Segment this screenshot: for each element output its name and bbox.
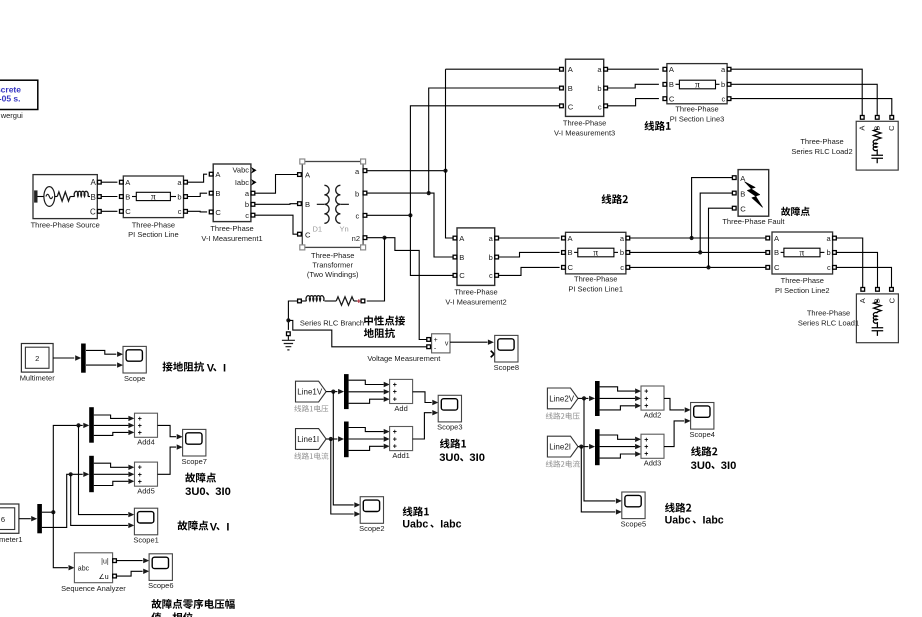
svg-text:I: I	[226, 521, 229, 533]
block Three-Phase Series RLC Load1	[856, 294, 898, 343]
svg-text:C: C	[215, 208, 221, 217]
block Three-Phase PI Section Line	[123, 176, 183, 218]
wire l1v out1	[349, 380, 384, 384]
wire l2v out3	[600, 406, 635, 410]
svg-text:3I0: 3I0	[215, 486, 231, 498]
label xianlu2 mid	[691, 446, 717, 456]
port XFMR c	[363, 214, 367, 218]
block Add3	[641, 434, 664, 468]
svg-text:A: A	[90, 178, 96, 187]
block Three-Phase PI Section Line1	[566, 232, 626, 274]
svg-text:Add1: Add1	[392, 451, 410, 460]
block Three-Phase Transformer (Two Windings)	[300, 159, 366, 250]
wire l2v out2	[600, 397, 635, 399]
port XFMR B	[298, 202, 302, 206]
svg-text:+: +	[138, 416, 142, 423]
svg-text:+: +	[138, 430, 142, 437]
svg-text:D1: D1	[313, 224, 323, 233]
svg-text:+: +	[644, 403, 648, 410]
wire Add1 to Scope3 in2	[413, 413, 432, 439]
port XFMR C	[298, 232, 302, 236]
port PI2 b	[833, 251, 837, 255]
svg-text:Three-Phase Source: Three-Phase Source	[31, 220, 100, 229]
svg-text:B: B	[90, 193, 95, 202]
port Load2 A	[860, 116, 864, 120]
label zhi xiangwei	[151, 612, 192, 617]
svg-text:B: B	[568, 248, 573, 257]
svg-text:e-05 s.: e-05 s.	[0, 94, 21, 104]
wire current to Scope1 in2	[71, 474, 128, 525]
wire VIM1 b to XFMR B	[255, 203, 298, 206]
svg-text:B: B	[125, 192, 130, 201]
svg-text:b: b	[245, 200, 249, 209]
port VIM1 b	[251, 203, 255, 207]
label xianlu1 bottom	[403, 506, 429, 516]
svg-text:V: V	[210, 521, 218, 533]
scope Scope7	[181, 429, 206, 465]
port VIM3 b	[604, 86, 608, 90]
label jiedizukang VI	[163, 362, 205, 372]
junction fault tap c	[706, 265, 710, 269]
wire PI2 b to load1 B	[836, 252, 877, 287]
svg-text:+: +	[434, 337, 438, 344]
svg-text:(Two Windings): (Two Windings)	[307, 270, 359, 279]
svg-text:abc: abc	[78, 565, 90, 572]
svg-text:Line2V: Line2V	[549, 394, 575, 403]
wire voltage to Add4 demux	[53, 425, 82, 512]
wire Line2V to Scope5 in1	[584, 398, 615, 501]
label xianlu1 dianya	[294, 405, 328, 412]
wire d5 out2	[94, 473, 129, 475]
port Three-Phase Source A	[98, 180, 102, 184]
wire Add to Scope3 in1	[413, 392, 432, 403]
port PI1 C	[562, 266, 566, 270]
wire Add5 to Scope7	[158, 447, 177, 474]
wire l1v out3	[349, 399, 384, 403]
port PI line c	[184, 210, 188, 214]
wire VM to Scope8	[450, 341, 488, 343]
label xianlu2 dianya	[546, 412, 580, 419]
svg-text:V-I Measurement3: V-I Measurement3	[554, 128, 615, 137]
label guzhangdian	[781, 207, 810, 216]
svg-text:wergui: wergui	[0, 111, 23, 120]
port VIM2 b	[495, 255, 499, 259]
svg-text:B: B	[669, 80, 674, 89]
demux Demux Add4	[89, 407, 94, 443]
wire Add2 to Scope4 in1	[664, 398, 684, 410]
svg-text:Three-Phase: Three-Phase	[311, 251, 354, 260]
label xianlu2	[602, 194, 628, 204]
svg-text:Line2I: Line2I	[549, 443, 571, 452]
wire source B to line B	[101, 196, 117, 198]
svg-text:Three-Phase: Three-Phase	[563, 119, 606, 128]
label xianlu1 dianliu	[294, 453, 328, 460]
port PI3 b	[727, 83, 731, 87]
port PI2 A	[766, 236, 770, 240]
wire fault tap B	[700, 193, 732, 252]
svg-text:v: v	[445, 341, 449, 348]
svg-text:+: +	[393, 382, 397, 389]
wire XFMR c to bus	[367, 214, 411, 216]
svg-text:C: C	[887, 125, 896, 131]
port VIM1 C	[209, 210, 213, 214]
wire voltage to Sequence Analyzer	[53, 512, 68, 568]
label guzhangdian VI	[178, 521, 209, 531]
port PI1 B	[562, 251, 566, 255]
port VM plus	[427, 338, 431, 342]
block Add	[390, 379, 413, 413]
svg-text:Transformer: Transformer	[312, 261, 353, 270]
port VIM2 a	[495, 236, 499, 240]
port XFMR A	[298, 173, 302, 177]
wire PI3 b to load2 B	[731, 84, 877, 115]
junction fault tap b	[698, 250, 702, 254]
svg-text:C: C	[669, 94, 675, 103]
svg-text:c: c	[489, 271, 493, 280]
port Load1 A	[861, 288, 865, 292]
wire VIM3 c to PI3 C	[608, 99, 659, 106]
svg-text:Scope: Scope	[124, 374, 145, 383]
svg-text:+: +	[393, 396, 397, 403]
port XFMR a	[363, 169, 367, 173]
wire XFMR b to bus	[367, 193, 453, 257]
svg-text:Add3: Add3	[644, 459, 662, 468]
wire demux out2 to Add5 demux	[42, 474, 83, 527]
svg-text:V-I Measurement1: V-I Measurement1	[201, 234, 262, 243]
svg-text:π: π	[800, 249, 805, 259]
svg-text:b: b	[620, 248, 624, 257]
demux Demux1	[37, 504, 42, 533]
wire d5 out1	[94, 463, 129, 467]
svg-text:PI Section Line1: PI Section Line1	[568, 284, 623, 293]
svg-text:A: A	[858, 298, 867, 303]
demux Demux	[81, 344, 86, 373]
from tag Line2V	[547, 388, 578, 409]
wire Line1V to demux	[326, 391, 337, 393]
label xianlu1 mid	[440, 439, 466, 449]
port PI line C	[120, 210, 124, 214]
wire fault tap A	[692, 178, 733, 238]
port VIM1 Iabc chevron	[251, 179, 257, 186]
scope Scope2	[359, 497, 384, 533]
svg-text:Add2: Add2	[644, 411, 662, 420]
svg-text:b: b	[355, 189, 359, 198]
svg-text:C: C	[568, 102, 574, 111]
svg-text:Scope7: Scope7	[181, 457, 206, 466]
wire PI2 a to load1 A	[836, 238, 862, 288]
port PI1 a	[626, 236, 630, 240]
svg-text:+: +	[644, 451, 648, 458]
scope Scope8	[494, 335, 519, 371]
port VIM3 C	[560, 104, 564, 108]
wire PI3 a to load2 A	[731, 69, 862, 115]
port PI1 c	[626, 266, 630, 270]
wire d4 out3	[94, 432, 129, 435]
svg-text:c: c	[245, 211, 249, 220]
block Voltage Measurement	[432, 334, 450, 353]
wire l1i out2	[349, 438, 384, 440]
svg-text:Three-Phase: Three-Phase	[574, 275, 617, 284]
svg-text:+: +	[393, 389, 397, 396]
svg-text:+: +	[644, 437, 648, 444]
wire Multimeter1 to demux	[19, 518, 31, 520]
label xianlu1 top	[644, 121, 670, 131]
wire n2 to RLC branch	[367, 238, 385, 301]
svg-text:b: b	[721, 80, 725, 89]
port PI2 a	[833, 236, 837, 240]
junction Line1V tap	[331, 390, 335, 394]
wire d5 out3	[94, 481, 129, 485]
svg-text:Scope8: Scope8	[494, 363, 519, 372]
svg-text:Iabc: Iabc	[235, 178, 249, 187]
svg-text:B: B	[568, 84, 573, 93]
svg-text:∠u: ∠u	[99, 573, 109, 581]
wire Multimeter to demux	[53, 357, 74, 359]
block Three-Phase V-I Measurement2	[457, 228, 495, 286]
svg-text:V-I Measurement2: V-I Measurement2	[445, 297, 506, 306]
junction XFMR c bus	[408, 213, 412, 217]
wire bus a to VIM3 A	[446, 68, 560, 70]
svg-text:c: c	[178, 207, 182, 216]
junction Line1I tap	[329, 437, 333, 441]
svg-text:Three-Phase: Three-Phase	[800, 137, 843, 146]
port VIM3 a	[604, 67, 608, 71]
svg-text:Yn: Yn	[340, 224, 349, 233]
port VIM3 B	[560, 86, 564, 90]
junction Line2I tap	[579, 445, 583, 449]
svg-text:Uabc: Uabc	[402, 519, 428, 531]
port VIM3 A	[560, 67, 564, 71]
wire VIM2 c to PI1 C	[499, 267, 560, 275]
block powergui	[0, 80, 38, 109]
from tag Line1V	[296, 381, 327, 402]
junction Line2V tap	[582, 396, 586, 400]
port XFMR b	[363, 191, 367, 195]
wire demux1 to Scope in1	[86, 350, 116, 354]
svg-text:Three-Phase: Three-Phase	[210, 224, 253, 233]
svg-text:Three-Phase Fault: Three-Phase Fault	[722, 217, 785, 226]
svg-text:Iabc: Iabc	[703, 515, 724, 527]
svg-text:I: I	[223, 362, 226, 374]
label zhongxingdian jiedi	[364, 316, 405, 326]
wire Line2I to Scope5 in2	[581, 447, 615, 512]
port PI3 B	[663, 83, 667, 87]
wire Add3 to Scope4 in2	[664, 421, 684, 447]
svg-text:Iabc: Iabc	[440, 519, 461, 531]
port Load1 B	[876, 288, 880, 292]
svg-text:Line1V: Line1V	[297, 388, 323, 397]
wire XFMR a to bus	[367, 170, 446, 172]
demux Demux Add5	[89, 456, 94, 492]
wire source C to line C	[101, 210, 117, 212]
svg-text:c: c	[721, 94, 725, 103]
port Load2 C	[890, 116, 894, 120]
wire Line2V to demux	[578, 397, 588, 399]
port PI3 A	[663, 67, 667, 71]
wire source A to line A	[101, 181, 117, 183]
block Three-Phase PI Section Line2	[772, 232, 833, 274]
junction n2	[382, 236, 386, 240]
svg-text:Scope1: Scope1	[133, 536, 158, 545]
wire l2v out1	[600, 387, 635, 391]
svg-text:A: A	[858, 126, 867, 131]
svg-text:Scope3: Scope3	[437, 423, 462, 432]
svg-text:c: c	[598, 102, 602, 111]
svg-text:Three-Phase: Three-Phase	[781, 276, 824, 285]
port PI line b	[184, 195, 188, 199]
svg-text:Three-Phase: Three-Phase	[132, 220, 175, 229]
port Fault C	[732, 206, 736, 210]
junction XFMR a bus	[443, 169, 447, 173]
svg-text:PI Section Line2: PI Section Line2	[775, 286, 830, 295]
scope Scope4	[689, 403, 714, 439]
wire fault tap C	[709, 208, 733, 267]
demux Demux Line2I	[595, 429, 600, 465]
block Multimeter	[21, 344, 53, 373]
junction current scope tap	[69, 472, 73, 476]
svg-text:Add4: Add4	[137, 438, 155, 447]
svg-text:C: C	[568, 263, 574, 272]
wire l2i out1	[600, 435, 635, 439]
svg-text:Series RLC Load2: Series RLC Load2	[791, 147, 852, 156]
wire demux1 to Scope in2	[86, 364, 116, 366]
svg-text:B: B	[215, 189, 220, 198]
svg-text:b: b	[177, 192, 181, 201]
label guzhangdian lingxu	[152, 599, 235, 609]
port Fault A	[732, 176, 736, 180]
port SeqAn angle	[113, 574, 117, 578]
svg-text:Scope6: Scope6	[148, 581, 173, 590]
svg-text:3I0: 3I0	[721, 460, 737, 472]
block Add4	[135, 413, 158, 447]
svg-text:+: +	[644, 389, 648, 396]
wire PI1 c to PI2 C	[630, 266, 766, 268]
block Three-Phase V-I Measurement1	[213, 164, 251, 222]
svg-text:C: C	[887, 297, 896, 303]
wire PI a to VIM1 A	[187, 174, 207, 182]
demux Demux Line2V	[595, 381, 600, 416]
block Add1	[390, 427, 413, 461]
block Three-Phase Source	[33, 175, 97, 219]
svg-text:+: +	[138, 472, 142, 479]
wire n2 to voltage measurement	[385, 238, 427, 340]
wire Line1I to demux	[326, 438, 337, 440]
port PI1 b	[626, 251, 630, 255]
wire Line1V to Scope2 in1	[333, 392, 353, 505]
wire RLC to ground	[288, 301, 297, 330]
port Three-Phase Source B	[98, 195, 102, 199]
wire d4 out1	[94, 415, 129, 418]
label xianlu2 dianliu	[546, 460, 580, 467]
port RLC branch right	[361, 299, 365, 303]
svg-text:Series RLC Load1: Series RLC Load1	[798, 318, 859, 327]
wire VIM1 a to XFMR A	[255, 175, 298, 194]
wire PI c to VIM1 C	[187, 210, 207, 213]
port XFMR n2	[363, 236, 367, 240]
wire Add4 to Scope7	[158, 425, 177, 436]
svg-text:Three-Phase: Three-Phase	[454, 288, 497, 297]
svg-text:3I0: 3I0	[469, 452, 485, 464]
wire Line2I to demux	[578, 446, 588, 448]
wire PI3 c to load2 C	[731, 99, 892, 116]
svg-text:B: B	[740, 190, 745, 199]
wire neutral to VM minus	[288, 320, 426, 346]
junction fault tap a	[690, 236, 694, 240]
svg-text:C: C	[125, 207, 131, 216]
wire bus a vertical	[446, 69, 454, 238]
port PI2 C	[766, 266, 770, 270]
svg-text:2: 2	[35, 354, 39, 363]
scope Scope1	[133, 508, 158, 544]
block Three-Phase V-I Measurement3	[566, 59, 604, 116]
port PI line B	[120, 195, 124, 199]
wire bus c to VIM2 C	[410, 215, 453, 275]
svg-text:b: b	[827, 248, 831, 257]
svg-text:n2: n2	[352, 234, 360, 243]
svg-text:Add5: Add5	[137, 487, 155, 496]
svg-text:Multimeter1: Multimeter1	[0, 535, 22, 544]
wire XFMR n2 out	[367, 237, 385, 239]
port Fault B	[732, 191, 736, 195]
port Load2 B	[875, 116, 879, 120]
block Three-Phase Fault	[738, 170, 769, 217]
block Multimeter1	[0, 504, 19, 533]
svg-text:+: +	[644, 444, 648, 451]
svg-text:PI Section Line3: PI Section Line3	[670, 114, 725, 123]
component Series RLC Branch	[301, 296, 361, 306]
wire bus b vertical	[429, 88, 560, 193]
port PI line a	[184, 180, 188, 184]
wire l1v out2	[349, 391, 384, 393]
port VIM3 c	[604, 104, 608, 108]
svg-text:6: 6	[1, 515, 5, 524]
wire PI b to VIM1 B	[187, 193, 207, 196]
block Three-Phase PI Section Line3	[667, 64, 727, 104]
wire l1i out3	[349, 446, 384, 450]
svg-text:+: +	[393, 444, 397, 451]
annotation red plus	[357, 299, 361, 303]
wire angle to Scope6 in2	[116, 571, 142, 576]
port ground	[287, 332, 291, 336]
svg-text:π: π	[593, 249, 598, 259]
wire VIM1 c to XFMR C	[255, 215, 298, 234]
svg-text:C: C	[740, 205, 746, 214]
svg-text:Voltage Measurement: Voltage Measurement	[367, 354, 441, 363]
wire VIM3 a to PI3 A	[608, 68, 659, 70]
wire PI1 a to PI2 A	[630, 237, 766, 239]
svg-text:B: B	[459, 253, 464, 262]
svg-text:C: C	[774, 263, 780, 272]
svg-text:+: +	[393, 429, 397, 436]
junction XFMR b bus	[427, 191, 431, 195]
port RLC branch left	[298, 299, 302, 303]
port VIM2 A	[453, 236, 457, 240]
svg-text:C: C	[305, 230, 311, 239]
wire VIM2 a to PI1 A	[499, 237, 560, 239]
port Load1 C	[890, 288, 894, 292]
junction voltage scope tap	[76, 423, 80, 427]
svg-text:c: c	[827, 263, 831, 272]
svg-text:Three-Phase: Three-Phase	[807, 309, 850, 318]
wire VIM3 b to PI3 B	[608, 84, 659, 88]
wire bus c to VIM3 C	[410, 106, 559, 216]
block Add5	[135, 462, 158, 496]
scope Scope6	[148, 554, 173, 590]
wire d4 out2	[94, 424, 129, 426]
wire PI1 b to PI2 B	[630, 251, 766, 253]
svg-text:Sequence Analyzer: Sequence Analyzer	[61, 584, 126, 593]
port VIM2 C	[453, 274, 457, 278]
